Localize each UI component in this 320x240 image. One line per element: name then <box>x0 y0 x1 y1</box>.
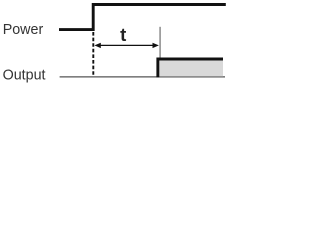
output high rectangle fill <box>159 59 224 77</box>
dashed reference line from power rising edge <box>92 32 94 75</box>
svg-text:Power: Power <box>3 22 44 38</box>
arrowhead left <box>94 43 100 48</box>
arrowhead right <box>153 43 159 48</box>
output high rectangle edges (left + top) <box>158 59 223 77</box>
wire power waveform (low, rising edge, high) <box>59 5 226 30</box>
svg-text:Output: Output <box>3 68 46 84</box>
output baseline (low level) <box>60 76 225 78</box>
dimension arrow shaft <box>97 44 156 46</box>
gray reference line at output rising edge <box>159 27 161 59</box>
svg-text:t: t <box>120 24 126 45</box>
